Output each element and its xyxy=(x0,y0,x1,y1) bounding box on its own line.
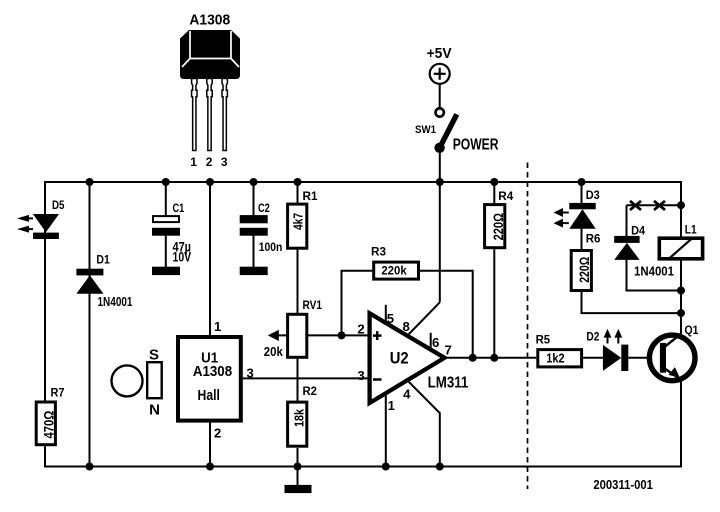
contact cross mark left xyxy=(630,201,641,210)
ground bar under C1 xyxy=(152,267,180,275)
svg-text:1: 1 xyxy=(214,319,221,334)
diode D4 1N4001 xyxy=(614,223,674,278)
wire C2 top lead xyxy=(253,182,255,216)
svg-text:U2: U2 xyxy=(390,349,409,367)
svg-text:220Ω: 220Ω xyxy=(491,213,506,240)
TO-92 leg 2 xyxy=(207,79,212,151)
svg-text:3: 3 xyxy=(221,155,228,169)
wire pin 6 stub xyxy=(430,333,432,349)
svg-text:220k: 220k xyxy=(381,263,407,277)
wire R4 bottom lead to output xyxy=(493,249,495,358)
dashed separator line xyxy=(527,163,529,490)
relay coil L1 xyxy=(659,223,702,260)
svg-text:D5: D5 xyxy=(52,198,65,212)
wire D4 bottom lead to collector node xyxy=(627,260,682,291)
wire comparator output xyxy=(445,357,537,359)
switch SW1 xyxy=(415,108,499,153)
wire R4 top lead xyxy=(493,182,495,204)
svg-text:C1: C1 xyxy=(173,201,185,215)
wire pin 4 diagonal to ground rail xyxy=(408,381,440,467)
svg-text:R7: R7 xyxy=(51,386,65,400)
svg-text:4: 4 xyxy=(403,386,411,401)
TO-92 package drawing A1308 xyxy=(180,11,240,169)
comparator U2 LM311 xyxy=(357,311,468,413)
RV1 wiper arrow xyxy=(268,330,279,341)
svg-text:Q1: Q1 xyxy=(685,323,699,337)
svg-text:6: 6 xyxy=(432,335,439,350)
svg-text:L1: L1 xyxy=(685,223,697,237)
svg-text:1N4001: 1N4001 xyxy=(98,294,133,309)
svg-text:Hall: Hall xyxy=(198,388,220,404)
svg-text:8: 8 xyxy=(403,319,410,334)
wire R3 left lead xyxy=(342,271,373,336)
junction dots top rail xyxy=(86,178,586,186)
svg-text:S: S xyxy=(149,347,159,364)
svg-text:D1: D1 xyxy=(96,253,110,267)
wire D3 to R6 xyxy=(581,228,583,249)
wire R6 bottom lead to collector node xyxy=(582,292,682,313)
svg-text:C2: C2 xyxy=(258,201,270,215)
wire switch to rail (V+ feed) and down to pin 8 xyxy=(439,148,441,303)
wire R1 top lead xyxy=(297,182,299,204)
wire C1 bottom lead xyxy=(165,235,167,268)
svg-text:4k7: 4k7 xyxy=(291,213,306,230)
contact cross mark right xyxy=(654,201,665,210)
LED D3 arrow 2 xyxy=(554,219,569,228)
capacitor C1 electrolytic xyxy=(152,201,191,265)
svg-text:1N4001: 1N4001 xyxy=(634,264,674,279)
svg-text:RV1: RV1 xyxy=(303,298,323,312)
svg-text:2: 2 xyxy=(357,321,364,336)
svg-text:R1: R1 xyxy=(303,189,318,203)
svg-text:1k2: 1k2 xyxy=(546,350,564,365)
wire pin 1 to ground rail xyxy=(385,393,387,467)
ground bar under C2 xyxy=(240,267,268,275)
svg-text:1: 1 xyxy=(190,155,197,169)
resistor R2 xyxy=(288,384,318,446)
svg-text:1: 1 xyxy=(388,398,395,413)
wire relay contact line with x marks xyxy=(627,204,682,206)
svg-text:LM311: LM311 xyxy=(428,375,469,392)
wire pin 5 stub xyxy=(385,305,387,323)
junction dots output node xyxy=(469,354,477,362)
svg-text:100n: 100n xyxy=(259,240,283,254)
svg-text:D3: D3 xyxy=(586,188,600,202)
svg-text:470Ω: 470Ω xyxy=(42,411,57,439)
LED D3 xyxy=(569,188,600,229)
potentiometer RV1 xyxy=(264,298,322,359)
resistor R4 xyxy=(485,189,514,248)
junction dots bottom rail xyxy=(86,463,444,471)
LED D5 arrow 2 xyxy=(17,226,33,233)
wire U1 pin2 vertical xyxy=(209,422,211,467)
wire U1 pin1 vertical xyxy=(209,182,211,336)
resistor R1 xyxy=(288,189,318,248)
power symbol +5V xyxy=(427,45,453,108)
LED D5 arrow 1 xyxy=(17,215,33,222)
LED D5 xyxy=(33,198,65,239)
svg-text:+5V: +5V xyxy=(427,45,453,62)
svg-text:SW1: SW1 xyxy=(415,124,436,136)
wire pin 8 diagonal xyxy=(408,302,440,335)
svg-text:20k: 20k xyxy=(264,344,284,359)
svg-text:2: 2 xyxy=(214,426,221,441)
LED D2 arrow 2 xyxy=(614,329,622,344)
wire outer loop (top rail, left rail, bottom rail, right rail) xyxy=(45,182,681,467)
hall sensor U1 A1308 xyxy=(178,319,254,441)
wire R5 to D2 xyxy=(583,357,603,359)
wire RV1 wiper to non-inverting input xyxy=(272,334,368,336)
svg-text:D4: D4 xyxy=(631,223,645,237)
wire R3 right lead xyxy=(420,271,473,358)
svg-text:R6: R6 xyxy=(586,232,601,246)
svg-text:A1308: A1308 xyxy=(193,364,232,380)
svg-text:5: 5 xyxy=(387,311,394,326)
svg-text:2: 2 xyxy=(206,155,213,169)
svg-text:R2: R2 xyxy=(303,384,318,398)
LED D2 arrow 1 xyxy=(604,329,612,344)
wire D2 to Q1 base xyxy=(628,357,660,359)
magnet bar S/N xyxy=(147,347,162,419)
wire R1 to RV1 xyxy=(297,250,299,315)
TO-92 leg 3 xyxy=(222,79,227,151)
wire C2 bottom lead xyxy=(253,235,255,268)
svg-text:200311-001: 200311-001 xyxy=(593,477,653,492)
svg-text:3: 3 xyxy=(357,368,364,383)
wire D1 branch vertical xyxy=(89,182,91,467)
svg-text:10V: 10V xyxy=(173,250,192,265)
svg-text:R3: R3 xyxy=(371,245,386,259)
wire R2 to ground bar xyxy=(297,448,299,486)
wire U1 pin3 to comparator inverting input xyxy=(243,377,368,379)
capacitor C2 xyxy=(240,201,283,254)
svg-text:R5: R5 xyxy=(536,332,551,346)
junction dots right rail xyxy=(677,201,685,209)
diode D1 1N4001 xyxy=(76,253,132,309)
TO-92 leg 1 xyxy=(192,79,197,151)
svg-text:18k: 18k xyxy=(292,408,307,427)
svg-text:7: 7 xyxy=(445,343,452,358)
wire D3 top lead xyxy=(581,182,583,204)
svg-text:POWER: POWER xyxy=(453,137,499,154)
ground bar under R2 xyxy=(285,485,312,493)
svg-text:D2: D2 xyxy=(586,330,599,344)
wire RV1 to R2 xyxy=(297,358,299,401)
svg-text:A1308: A1308 xyxy=(189,11,230,28)
resistor R5 xyxy=(536,332,582,367)
svg-text:3: 3 xyxy=(247,365,254,380)
svg-text:R4: R4 xyxy=(498,189,513,203)
magnet disc xyxy=(112,365,143,396)
svg-text:N: N xyxy=(149,401,160,418)
wire D4 top lead xyxy=(626,205,628,236)
resistor R7 xyxy=(36,386,64,445)
svg-text:220Ω: 220Ω xyxy=(577,257,592,283)
LED D3 arrow 1 xyxy=(554,208,569,217)
junction dot RV1 wiper / R3 xyxy=(338,331,346,339)
LED D2 xyxy=(586,330,628,372)
wire C1 top lead xyxy=(165,182,167,216)
resistor R3 xyxy=(371,245,419,280)
resistor R6 xyxy=(571,232,600,291)
transistor Q1 xyxy=(649,323,698,381)
